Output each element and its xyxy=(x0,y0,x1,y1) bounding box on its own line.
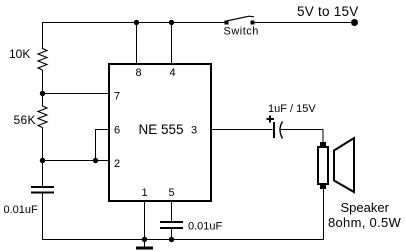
svg-text:2: 2 xyxy=(114,158,120,170)
wire: pin 8 riser to top rail xyxy=(136,23,138,65)
IC U1 NE 555 xyxy=(109,64,211,201)
svg-text:10K: 10K xyxy=(9,47,30,61)
wire: left rail vertical between R2 and C1 xyxy=(42,128,44,187)
svg-text:1uF / 15V: 1uF / 15V xyxy=(268,103,316,115)
svg-text:8: 8 xyxy=(136,67,142,79)
wire: pin 6 to pin 2 tie (L-shape) xyxy=(96,130,110,161)
svg-text:0.01uF: 0.01uF xyxy=(188,221,223,233)
node: junction pin6/pin2 tie xyxy=(93,158,98,163)
svg-text:8ohm, 0.5W: 8ohm, 0.5W xyxy=(328,215,402,230)
node: junction pin 8 on rail xyxy=(134,20,139,25)
wire: left rail vertical, top (rail down to R1) xyxy=(42,22,44,49)
svg-text:5: 5 xyxy=(169,187,175,199)
svg-text:5V to 15V: 5V to 15V xyxy=(297,4,359,19)
capacitor C1 0.01uF xyxy=(31,186,54,194)
wire: speaker bottom to ground rail xyxy=(323,188,325,240)
node: junction pin1/ground xyxy=(142,237,147,242)
svg-text:Switch: Switch xyxy=(224,26,259,38)
ground xyxy=(136,240,153,250)
svg-text:1: 1 xyxy=(142,187,148,199)
wire: top power rail, right segment (switch to supply terminal) xyxy=(253,22,355,24)
svg-text:0.01uF: 0.01uF xyxy=(4,204,39,216)
svg-text:4: 4 xyxy=(170,67,176,79)
wire: C1 bottom to bottom rail xyxy=(42,194,44,241)
wire: left rail vertical between R1 and R2 xyxy=(42,70,44,107)
wire: top power rail, left segment (V+ rail to switch) xyxy=(42,22,225,24)
svg-text:6: 6 xyxy=(114,125,120,137)
wire: C2 to speaker (with corner down to speaker top) xyxy=(281,130,323,144)
node: junction pin 4 on rail xyxy=(169,20,174,25)
wire: pin 4 riser to top rail xyxy=(171,23,173,65)
svg-text:NE 555: NE 555 xyxy=(139,122,184,137)
node: junction C3/ground xyxy=(169,237,174,242)
speaker LS1 xyxy=(318,138,354,192)
resistor R2 56K xyxy=(38,106,47,128)
wire: C3 bottom to ground rail xyxy=(171,229,173,240)
switch S1 xyxy=(225,16,255,24)
capacitor C3 0.01uF xyxy=(160,221,183,229)
wire: bottom ground rail xyxy=(43,239,325,241)
resistor R1 10K xyxy=(38,49,47,71)
node: junction R1/R2/pin7 xyxy=(40,91,45,96)
label: + polarity mark xyxy=(267,116,275,123)
wire: pin 3 output to C2 xyxy=(211,129,273,131)
wire: pin 7 stub (junction to IC) xyxy=(43,93,110,95)
svg-text:7: 7 xyxy=(114,91,120,103)
capacitor C2 1uF/15V (polarized) xyxy=(274,122,283,139)
svg-text:Speaker: Speaker xyxy=(341,200,390,215)
svg-text:3: 3 xyxy=(191,125,197,137)
wire: pin 5 stub down to C3 xyxy=(171,201,173,222)
wire: pin 2 wire (junction to IC) xyxy=(43,160,110,162)
node: junction R2/C1/pin2 xyxy=(40,158,45,163)
svg-text:56K: 56K xyxy=(14,113,36,127)
wire: pin 1 stub down to ground rail xyxy=(144,201,146,240)
node: V+ supply terminal dot xyxy=(351,19,358,26)
